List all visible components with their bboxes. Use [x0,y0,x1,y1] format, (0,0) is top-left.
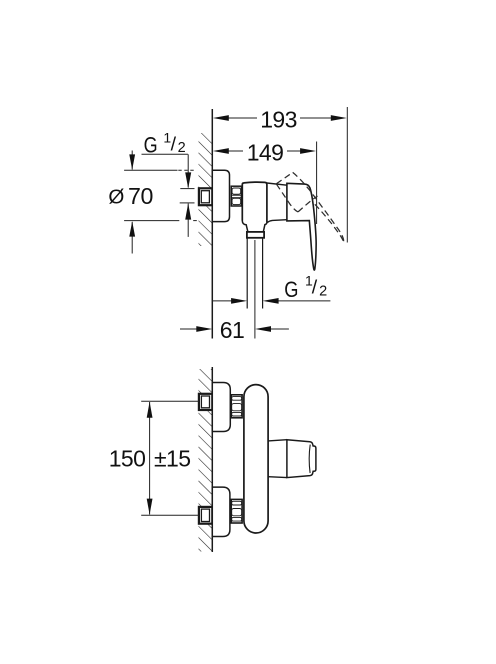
dimension 61 line [180,328,198,330]
wall line (bottom view) [211,367,213,552]
dia70 lower extension line [124,220,179,222]
G 1/2 stub extension line top [180,188,194,190]
lever hub inner arc [309,445,310,473]
svg-text:2: 2 [178,140,186,156]
dimension 193 left arrow [213,115,229,121]
dimension 150 down arrow [147,499,153,515]
G 1/2 upper arrow [187,154,189,187]
G 1/2 lower arrow [187,204,189,237]
G 1/2 stub extension line bottom [180,202,195,204]
dimension 193 line [227,117,334,119]
dimension 149 line [227,150,303,152]
svg-text:/: / [312,276,318,298]
svg-text:70: 70 [128,183,153,209]
dimension 61 right arrow [255,326,271,332]
valve neck (bottom view) [268,440,287,478]
hose center line [254,240,256,339]
dia70 upper arrow [131,151,133,170]
dia70 upper extension line [124,169,177,171]
hose connector band [247,232,264,238]
wall stub fitting (top view) [199,188,212,205]
dimension 149 right arrow [300,148,316,154]
lever handle dashed (raised position) [277,172,344,243]
svg-text:G: G [284,277,298,302]
dimension 150 vertical line [149,402,151,515]
bottom union flange [212,487,230,536]
top union stub [199,394,212,410]
svg-text:193: 193 [260,106,297,132]
mixer body capsule (bottom view) [244,385,268,533]
dimension 149 left arrow [213,148,229,154]
cartridge dome (top view) [267,183,287,223]
top union nut [231,395,242,418]
svg-text:Ø: Ø [108,185,124,208]
union nut (top view) [231,186,241,206]
shower hose right line [262,238,264,309]
dimension G 1/2 bottom: left arrow [212,300,232,302]
dimension 61 left arrow [196,326,212,332]
top union flange [212,383,230,432]
wall hatching (bottom view) [199,369,213,552]
dia70 lower arrow [131,222,133,254]
bottom union nut [231,499,242,523]
dimension 150 bottom extension line [141,514,199,516]
dimension G 1/2 bottom: right arrow [277,300,330,302]
escutcheon flange (top view) [212,170,229,221]
svg-text:150: 150 [109,446,146,472]
svg-text:61: 61 [220,317,244,343]
wall hatching (top view) [199,133,213,246]
dimension 150 top extension line [141,400,199,402]
dimension 149 extension line [316,142,318,225]
svg-text:2: 2 [319,283,327,299]
svg-text:G: G [144,132,158,157]
bottom union stub [199,507,212,524]
label G 1/2 top leader line [142,153,188,155]
svg-text:±15: ±15 [154,446,190,472]
dimension 193 extension line [346,107,348,243]
svg-text:149: 149 [247,139,284,165]
body bottom and outlet neck [242,221,267,232]
shower hose left line [246,238,248,309]
svg-text:/: / [171,133,177,155]
mixer body (top view) [242,182,267,222]
wall stub inner thread square [201,191,209,203]
dimension 193 right arrow [331,115,347,121]
lever handle solid (top view) [287,183,316,270]
dimension 150 up arrow [147,402,153,418]
lever hub (bottom view) [287,440,316,478]
wall line (top view) [211,109,213,339]
